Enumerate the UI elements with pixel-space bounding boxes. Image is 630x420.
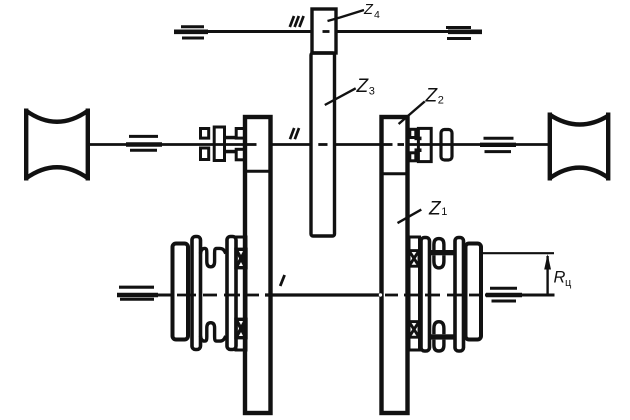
elastic coupling right top: flange bar (429, 250, 454, 255)
elastic coupling right bottom: pin loop down (434, 340, 444, 351)
rim line left wheel (245, 170, 271, 173)
coupling on shaft II left: hub squares (201, 129, 209, 160)
rolling bearing right top (409, 251, 419, 267)
roller left on shaft II (26, 109, 88, 181)
rolling bearing left top (236, 249, 246, 267)
svg-text:Z: Z (363, 2, 374, 18)
svg-text:1: 1 (441, 206, 447, 218)
svg-text:R: R (554, 269, 566, 287)
rim line right wheel (382, 172, 408, 175)
shaft II center line (88, 143, 548, 146)
elastic coupling left top profile (201, 248, 226, 266)
bearing block right housing (409, 237, 420, 350)
label Z1 leader (398, 210, 422, 224)
flange disc right inner (421, 238, 430, 352)
gear Z3 on shaft II (311, 53, 335, 236)
coupling on shaft II right: hub ring (441, 130, 452, 161)
gear wheel right (Z2/Z1 block) (382, 117, 408, 413)
gear Z4 on shaft III (312, 9, 336, 53)
elastic coupling right bottom: pin loop up (434, 322, 444, 335)
shaft I center line (117, 294, 555, 297)
svg-text:Z: Z (428, 199, 442, 220)
drive roller left on shaft I (173, 244, 189, 340)
dimension arrowhead (544, 254, 551, 270)
svg-text:Z: Z (356, 76, 370, 97)
coupling on shaft II right: gear-side teeth squares (410, 129, 416, 161)
dimension line top (roller radius) (481, 252, 554, 254)
flange disc right outer (455, 238, 464, 352)
coupling on shaft II right: sleeve (418, 128, 431, 161)
bearing left of shaft I (117, 287, 158, 299)
elastic coupling right top: pin loop down (434, 255, 444, 268)
coupling on shaft II left: gear-side teeth squares (236, 129, 245, 160)
rolling bearing left bottom (236, 319, 246, 337)
junction void on shaft I at right wheel edge (379, 293, 382, 296)
dimension extension vertical (546, 256, 548, 296)
label Z2 leader (399, 101, 425, 124)
coupling on shaft II left: flange bars (225, 136, 237, 154)
elastic coupling right top: pin loop up (434, 239, 444, 250)
bearing left of shaft III (174, 27, 208, 38)
svg-text:3: 3 (369, 86, 375, 98)
gear wheel left (Z2/Z1 block) (245, 117, 271, 413)
coupling on shaft II left: sleeve (214, 127, 224, 161)
drive roller right on shaft I (466, 244, 482, 340)
label Z4 leader (328, 10, 365, 21)
bearing right of shaft II (480, 138, 516, 151)
bearing right of shaft I (486, 288, 522, 301)
flange disc left outer (192, 237, 201, 350)
label I (280, 275, 284, 286)
flange disc left inner (227, 237, 236, 350)
bearing block left housing (236, 237, 246, 350)
elastic coupling left bottom profile (201, 323, 226, 341)
label Z3 leader (325, 88, 356, 105)
roller right on shaft II (549, 113, 608, 181)
bearing left of shaft II (126, 136, 162, 150)
svg-text:ц: ц (565, 277, 572, 289)
label II (290, 128, 299, 139)
bearing right of shaft III (446, 28, 482, 39)
svg-text:Z: Z (425, 86, 439, 107)
label III (290, 16, 304, 27)
svg-text:2: 2 (438, 95, 444, 107)
elastic coupling right bottom: flange bar (429, 334, 454, 339)
svg-text:4: 4 (374, 9, 380, 21)
shaft III center line (174, 30, 481, 33)
rolling bearing right bottom (409, 322, 419, 338)
coupling on shaft II right: flange bars (415, 137, 422, 152)
